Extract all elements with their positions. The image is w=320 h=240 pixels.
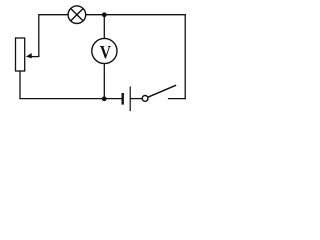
wiper arrowhead on R1 — [25, 53, 32, 59]
wire: wiper arm horizontal — [30, 56, 39, 58]
wire: right rail — [184, 14, 186, 99]
wire: top rail right segment (lamp to right corner) — [86, 14, 186, 16]
battery BT1 negative plate (short thick) — [121, 93, 123, 105]
potentiometer R1 body — [16, 38, 25, 71]
switch S1 pivot circle — [142, 96, 148, 102]
wire: battery to switch — [130, 98, 142, 100]
lamp L1 cross — [71, 9, 83, 21]
node: top junction dot — [102, 12, 107, 17]
node: bottom junction dot — [102, 96, 107, 101]
voltmeter V1 circle — [92, 38, 117, 63]
lamp L1 circle — [68, 6, 86, 24]
switch S1 lever (open) — [148, 85, 176, 97]
voltmeter V1 label V — [100, 46, 111, 58]
wire: voltmeter top lead — [103, 15, 105, 39]
wire: bottom rail from R1 to battery — [19, 98, 122, 100]
wire: R1 bottom lead — [19, 71, 21, 98]
wire: top rail left segment (corner to lamp) — [39, 15, 68, 57]
wire: voltmeter bottom lead — [103, 64, 105, 99]
battery BT1 positive plate (long thin) — [129, 86, 131, 111]
wire: switch right contact — [168, 98, 186, 100]
